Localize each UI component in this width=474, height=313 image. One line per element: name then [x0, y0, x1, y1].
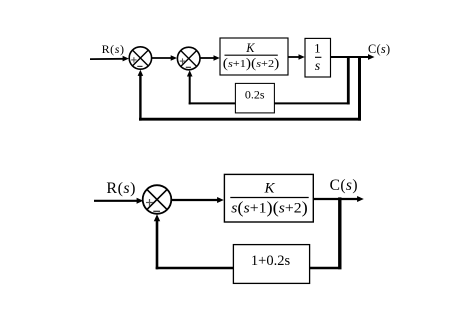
- svg-text:s: s: [315, 59, 321, 74]
- svg-text:C(s): C(s): [330, 177, 358, 194]
- svg-text:s(s+1)(s+2): s(s+1)(s+2): [231, 198, 308, 217]
- svg-text:0.2s: 0.2s: [245, 88, 265, 102]
- svg-text:K: K: [245, 41, 255, 55]
- svg-text:R(s): R(s): [102, 42, 125, 56]
- svg-text:1+0.2s: 1+0.2s: [251, 253, 291, 269]
- svg-text:1: 1: [314, 40, 321, 55]
- svg-text:(s+1)(s+2): (s+1)(s+2): [223, 56, 279, 72]
- svg-text:C(s): C(s): [368, 42, 390, 56]
- svg-text:K: K: [263, 181, 275, 197]
- svg-text:R(s): R(s): [106, 180, 136, 197]
